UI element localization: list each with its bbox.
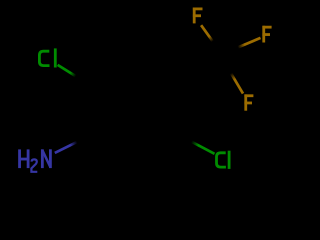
bond C7-F3 (gold half-bond): [231, 73, 243, 93]
atom label F (bottom fluorine): [244, 94, 253, 110]
atom label Cl (bottom-right chlorine): [217, 151, 230, 169]
bond N-C1 (blue half-bond): [55, 142, 77, 153]
atom label F (top fluorine): [193, 8, 203, 24]
bond C7-F1 (gold half-bond): [201, 25, 213, 41]
bond C2-Cl (green half-bond): [58, 65, 76, 76]
atom label F (right fluorine): [262, 26, 271, 43]
atom label H2N (amino group): [20, 149, 29, 168]
subscript 2 of H2N: [31, 159, 37, 171]
bond C5-Cl (green half-bond, bottom right): [192, 142, 215, 154]
atom label Cl (top-left chlorine): [39, 48, 55, 67]
bond C7-F2 (gold half-bond): [238, 38, 261, 48]
